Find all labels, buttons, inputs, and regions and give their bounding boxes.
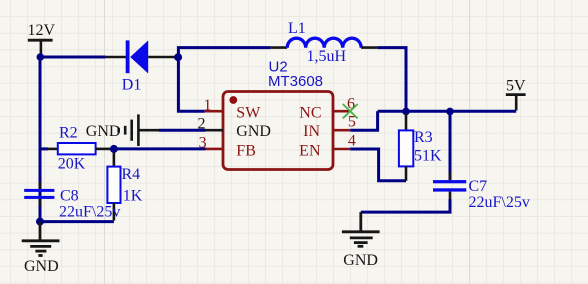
power port 5V xyxy=(506,77,526,110)
svg-text:22uF\25v: 22uF\25v xyxy=(59,204,120,221)
wire top-right rail xyxy=(378,110,517,113)
svg-text:12V: 12V xyxy=(28,22,56,39)
svg-text:1K: 1K xyxy=(123,187,143,204)
pin 2 GND xyxy=(198,116,271,141)
pin 4 EN xyxy=(299,133,356,160)
capacitor C7 xyxy=(433,114,530,211)
wire left vertical rail xyxy=(39,57,42,222)
resistor R3 xyxy=(399,114,442,181)
svg-text:NC: NC xyxy=(299,104,321,121)
wire R4 bottom to left rail xyxy=(40,220,114,223)
pin 5 IN xyxy=(303,113,356,140)
wire pin4 EN run xyxy=(350,149,406,181)
inductor L1 xyxy=(271,20,378,65)
svg-text:GND: GND xyxy=(343,252,378,269)
wire riser to inductor xyxy=(178,48,270,58)
svg-text:MT3608: MT3608 xyxy=(268,73,323,90)
svg-text:EN: EN xyxy=(299,142,321,159)
node R3 top junction xyxy=(402,108,410,116)
svg-text:4: 4 xyxy=(348,133,356,150)
diode D1 xyxy=(106,40,175,93)
node 12V junction xyxy=(37,53,45,61)
svg-text:IN: IN xyxy=(303,123,320,140)
svg-text:GND: GND xyxy=(86,123,121,140)
no-ERC marker (green cross) on pin 6 xyxy=(343,104,358,118)
pin 3 FB xyxy=(199,135,256,160)
svg-text:R2: R2 xyxy=(59,124,78,141)
svg-text:GND: GND xyxy=(236,123,271,140)
svg-text:R4: R4 xyxy=(122,166,141,183)
svg-text:SW: SW xyxy=(236,104,261,121)
svg-text:20K: 20K xyxy=(58,155,86,172)
resistor R2 xyxy=(47,124,111,172)
svg-text:1: 1 xyxy=(204,97,212,114)
svg-text:D1: D1 xyxy=(122,77,142,94)
svg-text:5V: 5V xyxy=(506,77,526,94)
svg-text:R3: R3 xyxy=(414,129,433,146)
pin 1 SW xyxy=(204,97,262,122)
svg-text:5: 5 xyxy=(348,113,356,130)
resistor R4 xyxy=(107,153,142,221)
ground symbol (left) xyxy=(22,222,60,275)
wire drop to pin 1 xyxy=(178,57,204,111)
svg-text:C8: C8 xyxy=(60,187,79,204)
node C8/GND junction xyxy=(36,218,44,226)
svg-text:L1: L1 xyxy=(288,20,306,37)
wire FB rail xyxy=(40,147,48,150)
wire GND port to pin 2 xyxy=(159,129,206,132)
power port 12V xyxy=(28,22,56,54)
op-amp U2 MT3608 body xyxy=(223,59,333,170)
node R2/R4/FB junction xyxy=(110,145,118,153)
power ground port GND (pin 2) xyxy=(86,114,159,146)
svg-text:FB: FB xyxy=(236,142,256,159)
wire C7 bottom to ground xyxy=(361,199,450,212)
wire junction to pin 3 xyxy=(114,147,206,150)
svg-text:GND: GND xyxy=(24,258,59,275)
capacitor C8 xyxy=(24,182,120,221)
ground symbol (middle) xyxy=(342,212,380,269)
svg-text:51K: 51K xyxy=(414,148,442,165)
pin 6 NC xyxy=(299,96,355,122)
wire 12V rail top horizontal xyxy=(40,56,105,59)
wire pin5 to rail xyxy=(350,111,377,130)
node diode output junction xyxy=(174,53,182,61)
svg-text:C7: C7 xyxy=(469,178,488,195)
svg-text:1,5uH: 1,5uH xyxy=(307,48,347,65)
svg-text:22uF\25v: 22uF\25v xyxy=(469,194,530,211)
node C7 top junction xyxy=(446,108,454,116)
wire inductor to top-right rail xyxy=(378,48,406,112)
